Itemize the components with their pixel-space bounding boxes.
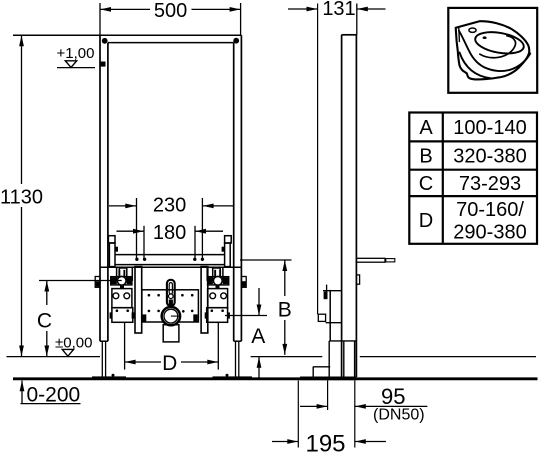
svg-text:D: D bbox=[162, 352, 177, 375]
data table column divider bbox=[442, 113, 444, 244]
side bracket top edge bbox=[323, 290, 342, 292]
dimension 500 line right segment bbox=[192, 8, 241, 10]
crossbar left block tab bbox=[115, 247, 118, 252]
raw floor line bbox=[13, 377, 538, 380]
right support rod bbox=[201, 267, 208, 333]
side bracket front edge bbox=[329, 290, 331, 341]
extension line below floor x198 bbox=[297, 381, 299, 448]
dimension C line upper segment bbox=[46, 281, 48, 306]
right leg tube end bbox=[234, 340, 242, 342]
dimension 195 arrowhead right bbox=[355, 439, 366, 444]
left bracket hole right bbox=[124, 293, 130, 299]
central plate rivet r1b bbox=[157, 294, 160, 297]
svg-text:73-293: 73-293 bbox=[459, 173, 521, 195]
svg-text:500: 500 bbox=[154, 0, 187, 22]
right bracket bolt shaft marks bbox=[214, 270, 216, 277]
dimension 500 arrowhead left bbox=[100, 7, 111, 12]
dimension D arrowhead right bbox=[207, 360, 218, 365]
svg-text:95: 95 bbox=[381, 384, 405, 409]
crossbar left end block bbox=[109, 243, 115, 267]
dimension 0-200 arrowhead up bbox=[20, 381, 25, 392]
side leg inner line front bbox=[328, 341, 330, 377]
central plate rivet r2d bbox=[191, 310, 194, 313]
side view front reference line bbox=[317, 4, 319, 315]
dimension B reference line bbox=[240, 259, 292, 261]
dimension 131 line right segment bbox=[357, 8, 386, 10]
dimension 95 line right segment bbox=[355, 405, 428, 407]
crossbar bolt dot 180 right bbox=[193, 258, 196, 261]
right bracket upper plate bbox=[207, 267, 223, 280]
hanger slot fitting slot bbox=[169, 283, 172, 295]
left bracket mid plate bbox=[112, 289, 132, 308]
dimension 95 arrowhead right bbox=[355, 404, 366, 409]
side rail front edge bbox=[341, 35, 343, 377]
dimension 131 extension line right bbox=[356, 4, 358, 35]
right bracket lower dot a bbox=[211, 309, 214, 312]
svg-text:1130: 1130 bbox=[0, 187, 43, 209]
right bracket mid plate bbox=[208, 289, 228, 308]
central plate rivet r1a bbox=[148, 294, 151, 297]
dimension C arrowhead bottom bbox=[44, 346, 49, 357]
svg-text:100-140: 100-140 bbox=[453, 117, 526, 139]
finished floor line middle segment bbox=[251, 356, 323, 358]
right leg insert bbox=[235, 341, 237, 376]
svg-text:C: C bbox=[419, 173, 433, 195]
left foot plate bbox=[92, 376, 126, 379]
drain pipe bbox=[163, 325, 179, 342]
dimension 230 extension line right bbox=[201, 198, 203, 259]
right bracket hole left bbox=[210, 293, 216, 299]
dimension 180 extension line right bbox=[194, 226, 196, 259]
right bracket side tab right bbox=[228, 312, 230, 318]
extension line below floor rail back bbox=[354, 381, 356, 448]
drain flange radius line bbox=[171, 315, 181, 317]
dimension C arrowhead top bbox=[44, 281, 49, 292]
side bracket hook box bbox=[318, 314, 325, 321]
bidet icon inner bowl oval bbox=[480, 36, 516, 58]
dimension 1130 line lower segment bbox=[21, 207, 23, 357]
bidet icon box bbox=[448, 8, 537, 93]
svg-text:+1,00: +1,00 bbox=[57, 45, 95, 62]
dimension B line upper segment bbox=[284, 260, 286, 296]
dimension 180 line right segment bbox=[195, 230, 223, 232]
right bracket bolt tail bbox=[216, 285, 220, 289]
dimension 500 line left segment bbox=[100, 8, 150, 10]
svg-text:A: A bbox=[419, 117, 433, 139]
central plate rivet r2a bbox=[148, 310, 151, 313]
left bracket bolt body bbox=[119, 268, 127, 280]
bidet fixing stud bbox=[356, 258, 385, 262]
dimension 1130 arrowhead bottom bbox=[19, 346, 24, 357]
left foot screw bump bbox=[112, 374, 115, 377]
left bracket bolt shaft marks bbox=[118, 270, 120, 277]
data table row divider 3 bbox=[409, 195, 537, 197]
dimension 500 arrowhead right bbox=[230, 7, 241, 12]
dimension 1130 line upper segment bbox=[21, 35, 23, 184]
dimension 1130 arrowhead top bbox=[19, 36, 24, 47]
crossbar left end cap bbox=[108, 236, 115, 243]
side leg inner line b bbox=[354, 341, 356, 377]
frame top rail inner edge bbox=[108, 42, 234, 44]
svg-text:131: 131 bbox=[322, 0, 355, 20]
data table outer border bbox=[409, 113, 537, 244]
svg-text:195: 195 bbox=[305, 431, 345, 453]
frame left rail inner edge bbox=[107, 43, 109, 342]
central plate end tab left bbox=[142, 314, 146, 321]
central mounting plate bbox=[142, 290, 199, 322]
finished floor line right segment bbox=[360, 356, 536, 358]
right bracket washer bar bbox=[208, 277, 229, 285]
drain flange outer ring bbox=[162, 307, 180, 325]
dimension 131 arrowhead left bbox=[307, 7, 318, 12]
svg-text:B: B bbox=[278, 298, 292, 321]
dimension A arrowhead up bbox=[257, 357, 262, 368]
dimension B arrowhead top bbox=[282, 260, 287, 271]
left bracket side tab right bbox=[132, 312, 135, 318]
hanger slot fitting body bbox=[167, 280, 175, 306]
dimension C reference line bbox=[39, 280, 122, 282]
left bracket bolt head circle bbox=[117, 276, 126, 285]
drain flange inner circle bbox=[164, 309, 178, 323]
bidet icon tap hole bbox=[469, 28, 476, 32]
dimension A arrowhead down bbox=[257, 305, 262, 316]
crossbar bolt dot 230 left bbox=[135, 258, 138, 261]
dimension C line lower segment bbox=[46, 331, 48, 357]
dimension 230 arrowhead left bbox=[125, 204, 136, 209]
side base plate bbox=[300, 377, 357, 381]
dimension A reference line bbox=[225, 315, 267, 317]
side leg inner line a bbox=[343, 341, 345, 377]
level symbol +1,00 line bbox=[57, 67, 95, 69]
dimension 230 line left segment bbox=[109, 205, 136, 207]
side foot step front bbox=[312, 367, 314, 377]
level symbol 0,00 triangle bbox=[62, 349, 73, 356]
dimension B arrowhead bottom bbox=[282, 344, 287, 355]
svg-text:D: D bbox=[419, 210, 433, 232]
side bracket bottom shelf bbox=[329, 340, 356, 342]
svg-text:A: A bbox=[251, 325, 265, 348]
crossbar bolt dot 180 left bbox=[143, 258, 146, 261]
crossbar right end block bbox=[225, 243, 231, 267]
dimension 500 extension line left bbox=[99, 3, 101, 35]
dimension A upper arrow line bbox=[258, 288, 260, 316]
finished floor line left segment bbox=[7, 356, 101, 358]
left bracket upper plate bbox=[117, 267, 133, 280]
left wall-anchor tab bbox=[95, 277, 100, 288]
central plate rivet r1d bbox=[191, 294, 194, 297]
extension line below floor drain center bbox=[327, 381, 329, 411]
hanger slot fitting lower block bbox=[169, 300, 173, 306]
central plate rivet r2c bbox=[182, 310, 185, 313]
dimension 131 arrowhead right bbox=[357, 7, 368, 12]
right foot screw bump bbox=[226, 374, 229, 377]
frame back panel line bbox=[100, 266, 241, 268]
bidet fixing stud end cap bbox=[386, 259, 395, 262]
side rail back edge bbox=[355, 35, 357, 377]
dimension 500 extension line right bbox=[240, 3, 242, 35]
left bracket side tab left bbox=[110, 312, 112, 318]
dimension 0-200 arrow line bbox=[21, 381, 23, 404]
frame right rail outer edge bbox=[240, 35, 242, 341]
side foot step top bbox=[313, 366, 330, 368]
dimension 180 arrowhead right bbox=[195, 229, 206, 234]
left wall-anchor tab bolt bbox=[96, 281, 100, 287]
dimension 95 arrowhead left bbox=[317, 404, 328, 409]
crossbar bottom edge bbox=[115, 264, 225, 266]
side rail top cap bbox=[342, 34, 357, 36]
central plate rivet r1c bbox=[181, 294, 184, 297]
right foot plate bbox=[213, 376, 253, 379]
svg-text:320-380: 320-380 bbox=[453, 146, 526, 168]
bidet icon left face inner edge bbox=[458, 28, 461, 41]
central plate rivet r2b bbox=[157, 310, 160, 313]
frame corner screw right bbox=[233, 38, 239, 44]
left bracket washer dark left bbox=[112, 278, 117, 285]
right bracket bolt head circle bbox=[213, 276, 222, 285]
svg-text:180: 180 bbox=[153, 222, 186, 244]
left rail clip bbox=[100, 62, 105, 67]
dimension B line lower segment bbox=[284, 320, 286, 355]
dimension D extension line left bbox=[124, 323, 126, 370]
dimension D arrowhead left bbox=[125, 360, 136, 365]
left leg tube end bbox=[100, 340, 108, 342]
dimension A lower arrow line bbox=[258, 357, 260, 378]
right bracket washer dark left bbox=[208, 278, 213, 285]
dimension 180 extension line left bbox=[143, 226, 145, 259]
crossbar right end cap bbox=[225, 236, 232, 243]
right wall-anchor tab bolt bbox=[242, 281, 246, 287]
svg-text:C: C bbox=[37, 309, 52, 332]
data table row divider 1 bbox=[409, 140, 537, 142]
svg-text:230: 230 bbox=[153, 195, 186, 217]
left support rod bbox=[135, 267, 142, 333]
right bracket washer dark right bbox=[223, 278, 228, 285]
side rail back clip bbox=[356, 275, 359, 284]
bidet icon belly curve bbox=[460, 53, 492, 79]
svg-text:(DN50): (DN50) bbox=[373, 407, 425, 424]
left bracket lower dot b bbox=[126, 309, 129, 312]
dimension 180 arrowhead left bbox=[133, 229, 144, 234]
dimension 230 extension line left bbox=[136, 198, 138, 259]
frame right rail inner edge bbox=[233, 43, 235, 342]
dimension 131 line left segment bbox=[288, 8, 318, 10]
dimension D extension line right bbox=[217, 323, 219, 370]
left bracket washer bar bbox=[111, 277, 132, 285]
right bracket hole right bbox=[221, 293, 227, 299]
svg-text:B: B bbox=[419, 146, 432, 168]
central plate end tab right bbox=[193, 314, 197, 321]
bidet icon spray nozzle dot bbox=[483, 36, 487, 39]
dimension 230 arrowhead right bbox=[203, 204, 214, 209]
right bracket lower plate bbox=[207, 308, 228, 323]
dimension D line right segment bbox=[181, 361, 218, 363]
bidet icon inner rim bbox=[474, 29, 526, 57]
dimension 195 line right segment bbox=[355, 441, 386, 443]
dimension 0-200 underline bbox=[21, 403, 81, 405]
dimension D line left segment bbox=[125, 361, 161, 363]
dimension 195 arrowhead left bbox=[287, 439, 298, 444]
right bracket lower dot b bbox=[221, 309, 224, 312]
dimension 195 line left segment bbox=[272, 441, 298, 443]
bidet icon body outline bbox=[456, 21, 531, 79]
bidet icon rim oval lower edge bbox=[459, 31, 530, 71]
frame left rail outer edge bbox=[99, 35, 101, 341]
svg-text:70-160/: 70-160/ bbox=[456, 199, 524, 221]
side bracket mid shelf bbox=[326, 322, 342, 324]
right bracket bolt body bbox=[213, 268, 221, 280]
dimension 180 line left segment bbox=[117, 230, 145, 232]
crossbar bolt dot 230 right bbox=[201, 258, 204, 261]
side bracket bolt block bbox=[324, 292, 328, 300]
right bracket side tab left bbox=[205, 312, 208, 318]
side bracket bolt tick bbox=[326, 285, 328, 297]
left leg insert bbox=[101, 341, 103, 376]
dimension 230 line right segment bbox=[203, 205, 234, 207]
frame corner screw left bbox=[102, 38, 108, 44]
left bracket lower dot a bbox=[116, 309, 119, 312]
dimension 95 line left segment bbox=[300, 405, 328, 407]
crossbar top edge bbox=[115, 254, 225, 256]
svg-text:290-380: 290-380 bbox=[453, 222, 526, 244]
right wall-anchor tab bbox=[241, 277, 246, 288]
frame top rail outer edge with left reference extension bbox=[13, 34, 242, 36]
left bracket bolt tail bbox=[120, 285, 124, 289]
hanger slot fitting nut circle bbox=[169, 294, 174, 299]
left bracket washer dark right bbox=[127, 278, 132, 285]
left bracket hole left bbox=[113, 293, 119, 299]
left bracket lower plate bbox=[112, 308, 133, 323]
level symbol +1,00 triangle bbox=[65, 61, 76, 68]
data table row divider 2 bbox=[409, 169, 537, 171]
crossbar right block tab bbox=[222, 247, 225, 252]
